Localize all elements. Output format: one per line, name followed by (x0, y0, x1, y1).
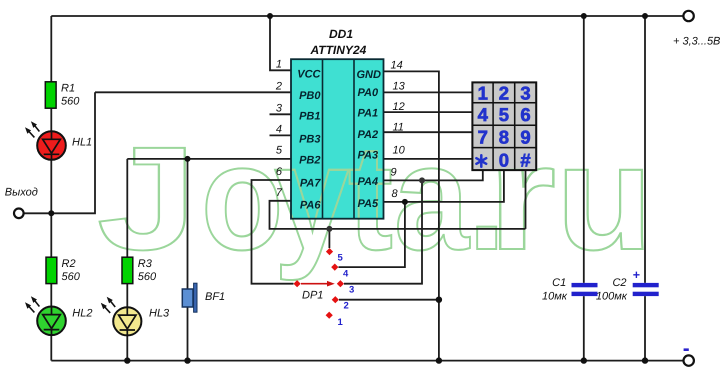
svg-text:560: 560 (62, 271, 81, 283)
svg-text:R3: R3 (138, 258, 153, 270)
svg-text:9: 9 (391, 167, 397, 179)
node junction output (48, 210, 54, 216)
svg-text:4: 4 (343, 269, 349, 280)
svg-text:PA6: PA6 (300, 199, 321, 211)
svg-text:GND: GND (357, 69, 382, 81)
resistor R3 fill (122, 257, 133, 283)
wire pin14 GND down to bottom rail (384, 71, 439, 360)
svg-text:8: 8 (392, 188, 399, 200)
capacitor C1 (542, 277, 597, 303)
wire pin1 VCC from rail (270, 16, 291, 70)
svg-text:PA1: PA1 (358, 108, 379, 120)
wire DP1 dot4 to PA5 net (339, 202, 405, 267)
node junction dot2-GND (436, 297, 442, 303)
switch DP1 (294, 248, 355, 328)
svg-text:5: 5 (338, 252, 344, 263)
svg-text:PA4: PA4 (358, 176, 379, 188)
wire HL1 to output node (50, 159, 52, 257)
svg-text:560: 560 (138, 271, 157, 283)
svg-text:PA3: PA3 (358, 150, 379, 162)
wire DP1 dot5 riser (328, 229, 330, 248)
node junction PB2-BF1 (185, 156, 191, 162)
svg-text:4: 4 (276, 123, 282, 135)
node junction rail-BF1 (184, 357, 190, 363)
wire pin7 PA6 to keypad col3 (270, 201, 526, 229)
node junction rail-C2 (642, 13, 648, 19)
wire pin10 PA3 to keypad row4 (384, 158, 474, 160)
svg-text:oyta.ru: oyta.ru (201, 114, 653, 282)
svg-text:VCC: VCC (297, 68, 321, 80)
svg-text:HL1: HL1 (72, 137, 92, 149)
LED HL3 (101, 297, 170, 336)
svg-text:5: 5 (276, 145, 283, 157)
wire HL2 to bottom rail (50, 335, 52, 361)
svg-text:DP1: DP1 (302, 289, 323, 301)
svg-text:14: 14 (391, 59, 403, 71)
svg-text:7: 7 (276, 187, 283, 199)
svg-text:PB2: PB2 (299, 154, 320, 166)
svg-text:PB1: PB1 (299, 111, 320, 123)
wire pin9 PA4 to keypad col1 (384, 170, 483, 180)
resistor R3 border (122, 257, 133, 283)
svg-text:10: 10 (393, 144, 406, 156)
node junction rail-C1b (581, 357, 587, 363)
svg-text:Выход: Выход (5, 187, 38, 199)
svg-text:9: 9 (520, 126, 530, 147)
svg-text:560: 560 (61, 95, 80, 107)
terminal minus (684, 355, 694, 365)
svg-text:6: 6 (276, 166, 283, 178)
svg-text:R1: R1 (61, 82, 75, 94)
buzzer BF1 (182, 283, 225, 312)
svg-text:2: 2 (275, 80, 282, 92)
svg-text:PA5: PA5 (358, 198, 379, 210)
svg-text:PB0: PB0 (299, 90, 321, 102)
svg-text:1: 1 (338, 317, 344, 328)
svg-text:2: 2 (499, 83, 509, 104)
wire DP1 dot2 to GND net (339, 299, 439, 301)
wire pin12 PA1 to keypad row2 (384, 111, 474, 113)
svg-text:ATTINY24: ATTINY24 (310, 43, 367, 57)
svg-text:DD1: DD1 (329, 27, 353, 41)
node junction rail-VCC (267, 13, 273, 19)
wire pin11 PA2 to keypad row3 (384, 131, 474, 133)
svg-text:PA0: PA0 (358, 87, 379, 99)
svg-text:2: 2 (344, 301, 349, 312)
wire C2 branch (644, 16, 646, 283)
svg-text:1: 1 (276, 58, 282, 70)
wire DP1 dot3 to PA4 net (344, 180, 422, 283)
svg-text:3: 3 (520, 83, 530, 104)
wire C2 to bottom rail (644, 296, 646, 361)
svg-text:13: 13 (393, 80, 406, 92)
svg-text:HL3: HL3 (149, 308, 170, 320)
wire HL3 to bottom rail (126, 335, 128, 361)
wire pin3 stub (270, 113, 292, 115)
svg-text:3: 3 (349, 285, 354, 296)
svg-text:12: 12 (393, 101, 405, 113)
node junction rail-C2b (642, 357, 648, 363)
wire pin6 PA7 to DP1 pole (252, 180, 294, 284)
svg-text:6: 6 (520, 104, 530, 125)
wire bottom rail (51, 360, 683, 362)
node junction PA4 (419, 177, 425, 183)
svg-text:J: J (97, 117, 197, 281)
node junction rail-GND (436, 357, 442, 363)
wire C1 to bottom rail (583, 296, 585, 361)
wire BF1 to bottom rail (187, 307, 189, 361)
wire BF1 branch (187, 159, 189, 289)
svg-text:+ 3,3...5В: + 3,3...5В (673, 35, 720, 47)
resistor R2 (46, 257, 57, 283)
node junction PA6-dot5 (326, 226, 332, 232)
keypad panel fill (471, 81, 537, 171)
svg-text:HL2: HL2 (72, 308, 92, 320)
wire left column top (rail to R1) (50, 16, 52, 82)
wire top rail (51, 15, 683, 17)
op IC DD1 ATTINY24 border (291, 27, 384, 219)
wire output terminal to PB0 riser (24, 92, 95, 213)
svg-text:4: 4 (478, 104, 489, 125)
wire pin2 PB0 (95, 91, 291, 93)
svg-text:8: 8 (499, 126, 509, 147)
wire R1 to HL1 (50, 108, 52, 132)
svg-text:5: 5 (499, 104, 509, 125)
LED HL1 (25, 121, 92, 160)
wire pin13 PA0 to keypad row1 (384, 91, 474, 93)
svg-text:100мк: 100мк (596, 291, 628, 303)
svg-text:C2: C2 (612, 277, 626, 289)
svg-text:#: # (520, 149, 530, 170)
op IC DD1 body fill (291, 59, 384, 219)
svg-text:10мк: 10мк (542, 291, 568, 303)
wire pin8 PA5 to keypad col2 (384, 170, 504, 202)
svg-text:PA7: PA7 (300, 178, 321, 190)
svg-text:0: 0 (499, 149, 509, 170)
svg-text:C1: C1 (552, 277, 566, 289)
LED HL2 (25, 296, 92, 335)
svg-text:R2: R2 (62, 258, 76, 270)
svg-text:1: 1 (478, 83, 488, 104)
svg-text:7: 7 (478, 126, 488, 147)
wire pin5 PB2 (127, 158, 291, 160)
terminal output (14, 209, 24, 219)
wire R2 to HL2 (50, 284, 52, 307)
svg-text:PB3: PB3 (299, 134, 320, 146)
terminal +3.3-5V (683, 11, 693, 21)
node junction rail-C1 (581, 13, 587, 19)
wire PB2 down to R3 (126, 159, 128, 257)
resistor R1 (45, 82, 56, 108)
node junction rail-HL3 (124, 357, 130, 363)
svg-text:11: 11 (393, 122, 404, 134)
svg-text:BF1: BF1 (205, 291, 225, 303)
wire C1 branch (583, 16, 585, 283)
wire keypad col3 drop (525, 170, 527, 229)
capacitor C2 (596, 268, 659, 303)
svg-text:+: + (633, 268, 640, 282)
wire pin4 stub (270, 134, 292, 136)
svg-text:3: 3 (276, 102, 283, 114)
node junction PA5 (402, 199, 408, 205)
svg-text:PA2: PA2 (358, 129, 379, 141)
keypad S1 grid and digits (472, 82, 536, 170)
wire R3 to HL3 (126, 284, 128, 308)
